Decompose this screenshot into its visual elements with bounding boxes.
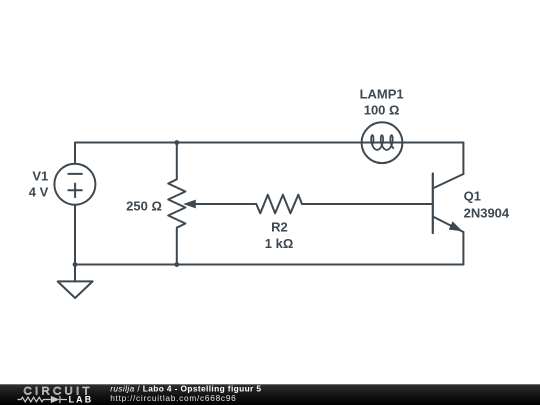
wire top rail: [75, 143, 463, 164]
voltage source V1: [54, 164, 95, 205]
svg-text:http://circuitlab.com/c668c96: http://circuitlab.com/c668c96: [110, 393, 236, 403]
resistor R2: [256, 195, 302, 214]
node pot top: [174, 140, 179, 145]
transistor Q1: [432, 174, 434, 234]
svg-text:4 V: 4 V: [29, 185, 49, 200]
potentiometer wiper arrow: [193, 203, 256, 205]
logo resistor-diode symbol: [18, 396, 68, 403]
lamp LAMP1: [362, 122, 403, 163]
svg-text:1 kΩ: 1 kΩ: [265, 236, 294, 251]
node pot bottom: [174, 262, 179, 267]
wire V1 bottom to ground node: [74, 205, 76, 265]
svg-text:V1: V1: [32, 169, 48, 184]
svg-text:250 Ω: 250 Ω: [126, 199, 162, 214]
ground: [74, 265, 76, 282]
svg-text:rusilja / Labo 4 - Opstelling: rusilja / Labo 4 - Opstelling figuur 5: [110, 383, 261, 393]
svg-text:LAMP1: LAMP1: [360, 86, 404, 101]
svg-text:100 Ω: 100 Ω: [364, 102, 400, 117]
wire bottom rail: [75, 264, 463, 266]
svg-text:2N3904: 2N3904: [464, 205, 510, 220]
potentiometer R1 250ohm: [168, 143, 185, 265]
svg-text:Q1: Q1: [464, 188, 481, 203]
node ground junction: [73, 262, 78, 267]
svg-text:R2: R2: [271, 219, 288, 234]
footer bar: [0, 384, 540, 405]
wire wiper to base: [302, 203, 433, 205]
svg-text:LAB: LAB: [69, 395, 94, 405]
